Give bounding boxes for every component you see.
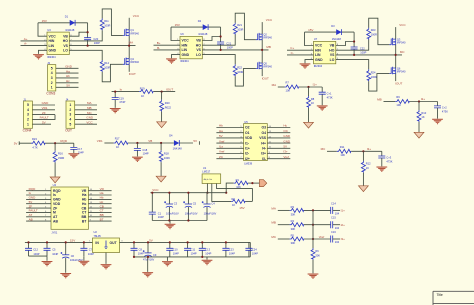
svg-text:15V: 15V: [175, 23, 180, 27]
current sense row: Is - R19 - IOUT: [110, 87, 175, 128]
svg-text:I3-: I3-: [262, 157, 266, 161]
svg-text:R11: R11: [104, 19, 109, 23]
svg-text:MB: MB: [87, 106, 92, 110]
svg-text:I1-: I1-: [245, 141, 249, 145]
wire: [278, 86, 285, 88]
svg-text:MA: MA: [271, 206, 276, 210]
svg-text:GND: GND: [42, 101, 50, 105]
svg-text:R11: R11: [340, 145, 345, 149]
wire pin12: [88, 207, 111, 209]
wire pin6: [216, 153, 243, 155]
svg-text:ILs: ILs: [219, 145, 224, 149]
svg-text:U1: U1: [203, 166, 207, 170]
svg-text:10K: 10K: [396, 103, 401, 107]
svg-text:Vref: Vref: [283, 155, 289, 159]
svg-text:VDD: VDD: [245, 136, 253, 140]
ground under C8 C9: [147, 257, 149, 272]
wire to node: [299, 86, 322, 88]
capacitor C16: [331, 236, 333, 243]
svg-text:104P: 104P: [173, 251, 179, 255]
wire to ground: [312, 260, 314, 273]
wire: [278, 238, 290, 240]
gate driver block A (U3): [21, 9, 140, 82]
ground of VCC bank: [169, 221, 171, 224]
15V input filter bank: [25, 239, 94, 279]
wire cap out: [333, 238, 340, 240]
U5 left pins: [216, 124, 243, 159]
wire pin1: [32, 123, 51, 125]
svg-text:C-: C-: [291, 51, 294, 55]
svg-text:VCC: VCC: [399, 23, 406, 27]
wire pin4: [75, 118, 97, 120]
wire pin2: [75, 109, 97, 111]
svg-text:O2: O2: [245, 126, 250, 130]
ground under R6: [308, 274, 319, 279]
svg-text:10K: 10K: [286, 89, 291, 93]
capacitor C19: [114, 92, 116, 98]
svg-text:3: 3: [27, 113, 29, 117]
svg-text:C+1: C+1: [327, 92, 332, 96]
svg-text:D3: D3: [331, 24, 335, 28]
svg-text:R21: R21: [237, 23, 242, 27]
svg-text:4: 4: [27, 108, 29, 112]
svg-text:I3+: I3+: [367, 147, 372, 151]
U5 right pins: [267, 124, 291, 159]
svg-text:Ha: Ha: [82, 193, 86, 197]
svg-text:R18: R18: [164, 151, 169, 155]
connector J3 CON3: [46, 61, 78, 96]
svg-text:Q2: Q2: [263, 32, 267, 36]
svg-text:Q4: Q4: [130, 57, 134, 61]
wire pin9: [267, 153, 290, 155]
svg-text:R14: R14: [104, 61, 109, 65]
svg-text:5: 5: [51, 66, 53, 70]
svg-text:104P: 104P: [252, 251, 258, 255]
wire VCC rail: [150, 192, 226, 194]
svg-text:IN: IN: [95, 241, 99, 245]
svg-text:5V: 5V: [149, 239, 153, 243]
capacitor C17 104P: [73, 143, 75, 147]
arrow ground below R12: [362, 173, 364, 186]
svg-text:R20: R20: [165, 101, 170, 105]
svg-text:4: 4: [69, 118, 71, 122]
svg-text:I4+: I4+: [261, 141, 266, 145]
connector J4 OUT: [65, 97, 97, 132]
svg-text:C22: C22: [360, 47, 365, 51]
resistor R19 1K: [139, 90, 153, 94]
resistor R20: [161, 92, 163, 100]
svg-text:1: 1: [27, 122, 29, 126]
arrow ground below R8: [308, 108, 310, 122]
svg-text:Title: Title: [437, 293, 443, 297]
diode D2: [198, 19, 208, 36]
arrow ground below R20: [161, 112, 163, 122]
svg-text:R5: R5: [291, 234, 295, 238]
svg-text:104P: 104P: [229, 251, 235, 255]
wire pin8: [26, 220, 51, 222]
wire to bus: [304, 209, 331, 211]
svg-text:C12: C12: [33, 248, 38, 252]
svg-text:I4-: I4-: [262, 147, 266, 151]
capacitor C5 100uF: [187, 193, 189, 221]
capacitor C9 47uF/16V: [147, 242, 149, 257]
wire In lead: [212, 184, 231, 202]
wire pin11: [88, 211, 111, 213]
svg-text:5V: 5V: [42, 120, 46, 124]
svg-text:R4: R4: [291, 219, 295, 223]
resistor R4 30K: [290, 223, 304, 227]
port arrow output: [259, 180, 266, 187]
svg-text:100uF/16V: 100uF/16V: [166, 212, 179, 216]
wire: [278, 209, 290, 211]
svg-text:104P: 104P: [143, 152, 149, 156]
svg-text:C3: C3: [174, 202, 178, 206]
capacitor C14: [331, 207, 333, 214]
wire: [327, 150, 337, 152]
gate driver block C (U7): [287, 18, 406, 91]
svg-text:2: 2: [69, 108, 71, 112]
svg-text:R8: R8: [311, 97, 315, 101]
RQD row: 5V - R23 - RQD node: [14, 137, 84, 183]
VCC filter bank C1 C3 C5 C4: [149, 188, 226, 229]
wire pin5: [56, 67, 79, 69]
wire pin9: [88, 220, 111, 222]
wire pin8: [267, 158, 290, 160]
wire pin2: [216, 132, 243, 134]
resistor R3 30K: [290, 208, 304, 212]
svg-text:MC: MC: [321, 147, 326, 151]
svg-text:R12: R12: [366, 162, 371, 166]
ground under C19: [114, 100, 116, 108]
svg-text:R2: R2: [232, 197, 236, 201]
svg-text:C24: C24: [252, 248, 257, 252]
svg-text:5: 5: [27, 103, 29, 107]
capacitor C8 104P: [133, 242, 135, 257]
svg-text:Q5: Q5: [263, 61, 267, 65]
svg-text:R7: R7: [286, 81, 290, 85]
svg-text:B+: B+: [157, 41, 161, 45]
capacitor C12 104P: [28, 242, 30, 256]
svg-text:15V: 15V: [239, 206, 244, 210]
wire pin2: [56, 82, 79, 84]
svg-text:30K: 30K: [291, 241, 296, 245]
svg-text:5V: 5V: [29, 200, 33, 204]
svg-text:1N4148: 1N4148: [173, 147, 183, 151]
wire: [104, 142, 113, 144]
svg-text:10K: 10K: [236, 185, 241, 189]
svg-text:OUT: OUT: [65, 128, 72, 132]
wire joining bottoms: [29, 255, 48, 257]
svg-text:Hb: Hb: [66, 74, 70, 78]
svg-text:C4: C4: [211, 202, 215, 206]
reference row: VR1 - R17 - VB - D4 - 5V: [97, 133, 200, 182]
ground under C6: [60, 273, 71, 278]
svg-text:30K: 30K: [291, 227, 296, 231]
svg-text:I2+: I2+: [245, 157, 250, 161]
wire to bus: [304, 224, 331, 226]
svg-text:IOUT: IOUT: [395, 81, 402, 85]
svg-text:A-: A-: [24, 42, 27, 46]
svg-text:3: 3: [51, 76, 53, 80]
resistor R11 10K: [337, 149, 351, 153]
ground under C18: [136, 150, 138, 156]
capacitor C6 100uF/25V: [65, 242, 67, 272]
svg-text:5V: 5V: [66, 84, 70, 88]
resistor R9 10K: [395, 100, 409, 104]
svg-text:VCC: VCC: [86, 120, 93, 124]
svg-text:M: M: [53, 211, 56, 215]
svg-text:I1+: I1+: [313, 83, 318, 87]
capacitor C42 473K: [437, 102, 439, 106]
svg-text:D2: D2: [198, 19, 202, 23]
svg-text:U3: U3: [47, 28, 51, 32]
svg-text:VSS: VSS: [259, 136, 267, 140]
svg-text:1K: 1K: [232, 203, 235, 207]
wire Is: [112, 91, 139, 93]
svg-text:3: 3: [69, 113, 71, 117]
svg-text:MA: MA: [129, 41, 134, 45]
svg-text:GND: GND: [86, 116, 94, 120]
svg-text:VR1: VR1: [42, 106, 48, 110]
resistor R18 100K: [160, 143, 162, 150]
svg-text:Is: Is: [53, 193, 56, 197]
wire to bus: [304, 238, 331, 240]
svg-text:104P: 104P: [52, 252, 58, 256]
svg-text:R3: R3: [291, 205, 295, 209]
svg-text:FAULT: FAULT: [40, 116, 49, 120]
svg-text:104P: 104P: [191, 251, 197, 255]
ground under C12 C5: [46, 256, 48, 261]
svg-text:Ha: Ha: [66, 69, 70, 73]
wire pin5: [216, 147, 243, 149]
svg-text:CON4: CON4: [23, 128, 32, 132]
capacitor C7 104P: [83, 242, 85, 256]
ground under C17: [73, 149, 75, 153]
svg-text:MA: MA: [272, 83, 277, 87]
MA sense RC filter: [272, 81, 333, 128]
svg-text:I2-: I2-: [245, 152, 249, 156]
svg-text:I3+: I3+: [261, 152, 266, 156]
svg-text:U5: U5: [244, 120, 248, 124]
svg-text:BT: BT: [100, 217, 104, 221]
svg-text:C23: C23: [229, 248, 234, 252]
svg-text:104P: 104P: [205, 251, 211, 255]
arrow port below R18: [160, 162, 162, 176]
svg-text:C14: C14: [331, 201, 336, 205]
wire pin14: [267, 127, 290, 129]
svg-text:C13: C13: [205, 248, 210, 252]
svg-text:474P: 474P: [119, 100, 125, 104]
MB sense RC filter: [377, 95, 448, 138]
5V output filter bank: [120, 239, 259, 278]
svg-text:100uF/16V: 100uF/16V: [204, 212, 217, 216]
svg-text:BB: BB: [100, 213, 104, 217]
svg-text:R10: R10: [421, 111, 426, 115]
svg-text:R6: R6: [315, 249, 319, 253]
svg-text:Ha: Ha: [219, 129, 223, 133]
wire to node: [351, 150, 382, 152]
IC U2 78L05 regulator: [89, 230, 123, 269]
svg-text:B-: B-: [157, 46, 160, 50]
diode D1: [65, 15, 75, 32]
svg-text:Q1: Q1: [130, 28, 134, 32]
svg-text:I3+: I3+: [283, 150, 288, 154]
svg-text:104: 104: [335, 212, 340, 216]
svg-text:473K: 473K: [442, 109, 448, 113]
svg-text:C16: C16: [331, 230, 336, 234]
wire: [278, 224, 290, 226]
svg-text:104P: 104P: [158, 215, 164, 219]
svg-text:RQD: RQD: [60, 139, 68, 143]
svg-text:47uF/16V: 47uF/16V: [143, 257, 155, 261]
arrow ground below R10: [418, 122, 420, 132]
svg-text:C17: C17: [77, 147, 82, 151]
svg-text:473K: 473K: [327, 96, 333, 100]
wire bottom rail: [134, 242, 250, 257]
capacitor C1 104P: [151, 193, 153, 221]
svg-text:OUT: OUT: [110, 241, 118, 245]
svg-text:IOUT: IOUT: [166, 87, 173, 91]
IC U4 JY01 motor controller: [51, 183, 88, 234]
ground under C13: [206, 257, 208, 260]
svg-text:Adj In Out: Adj In Out: [204, 178, 213, 181]
U4 left pins: [26, 187, 51, 222]
svg-text:C7: C7: [89, 248, 93, 252]
svg-text:5V: 5V: [193, 139, 197, 143]
svg-text:I2+: I2+: [421, 97, 426, 101]
svg-text:Hb: Hb: [219, 124, 223, 128]
wire pin4: [26, 203, 51, 205]
svg-text:O4: O4: [261, 131, 266, 135]
svg-text:MA: MA: [87, 101, 92, 105]
wire pin7: [26, 216, 51, 218]
connector J1 CON4: [23, 97, 55, 132]
resistor R16 330R: [54, 143, 56, 150]
svg-text:C9: C9: [153, 253, 157, 257]
wire pin6: [26, 211, 51, 213]
ground under C41: [321, 94, 323, 105]
svg-text:O3: O3: [261, 126, 266, 130]
svg-text:1N4148: 1N4148: [332, 37, 342, 41]
svg-text:U7: U7: [314, 37, 318, 41]
svg-text:U2: U2: [94, 230, 98, 234]
svg-text:1K: 1K: [311, 101, 314, 105]
resistor R6 30K: [311, 248, 315, 260]
svg-text:MB: MB: [271, 221, 276, 225]
wire bottom rail: [152, 220, 207, 222]
svg-text:GND: GND: [65, 65, 73, 69]
svg-text:2: 2: [27, 118, 29, 122]
svg-text:O1: O1: [245, 131, 250, 135]
svg-text:C19: C19: [119, 97, 124, 101]
svg-text:Ha: Ha: [100, 191, 104, 195]
wire Out lead: [217, 184, 253, 202]
svg-text:C5: C5: [52, 248, 56, 252]
svg-text:4.7K: 4.7K: [32, 145, 38, 149]
ground under C7: [79, 261, 90, 266]
svg-text:1N4148: 1N4148: [65, 28, 75, 32]
capacitor C11 104P: [187, 242, 189, 257]
title block: [433, 291, 474, 305]
capacitor C10 104P: [169, 242, 171, 257]
wire pin4: [32, 109, 55, 111]
svg-text:IOUT: IOUT: [262, 76, 269, 80]
wire pin1: [56, 86, 79, 88]
capacitor C4 100uF: [206, 193, 208, 221]
resistor R10 1K: [418, 102, 420, 111]
svg-text:C+: C+: [290, 46, 294, 50]
svg-text:C1: C1: [158, 212, 162, 216]
svg-text:JY01: JY01: [51, 231, 57, 235]
wire to node: [45, 142, 73, 144]
svg-text:100K: 100K: [164, 156, 170, 160]
wire pin2: [32, 115, 55, 120]
wire pin13: [267, 132, 290, 134]
wire to 5V: [179, 141, 199, 145]
svg-text:U6: U6: [180, 32, 184, 36]
svg-text:5V: 5V: [14, 141, 18, 145]
svg-text:D4: D4: [169, 133, 173, 137]
wire pin14: [88, 198, 111, 200]
arrow port below R16: [54, 163, 56, 177]
capacitor C23 104P: [225, 242, 227, 257]
svg-text:Hc: Hc: [283, 124, 287, 128]
resistor R2 1K: [231, 199, 245, 203]
svg-text:Vref: Vref: [219, 150, 225, 154]
svg-text:Hc: Hc: [100, 200, 104, 204]
wire pin7: [216, 158, 243, 160]
svg-text:15V: 15V: [308, 28, 313, 32]
wire cap out: [333, 224, 340, 226]
wire pin13: [88, 203, 111, 205]
svg-text:5V: 5V: [219, 134, 223, 138]
ground under C43: [381, 158, 383, 166]
capacitor C43 473K: [381, 151, 383, 156]
diode D3: [331, 24, 341, 41]
svg-text:C21: C21: [226, 42, 231, 46]
ground under C10: [166, 257, 168, 261]
svg-text:R17: R17: [115, 137, 120, 141]
svg-text:30K: 30K: [315, 253, 320, 257]
svg-text:1K: 1K: [141, 94, 144, 98]
wire pin3: [75, 114, 97, 116]
svg-text:R19: R19: [140, 87, 145, 91]
capacitor C15: [331, 221, 333, 228]
svg-text:78L05: 78L05: [94, 234, 102, 238]
wire pin5: [26, 207, 51, 209]
svg-text:IOUT: IOUT: [129, 72, 136, 76]
resistor R7 10K: [285, 85, 299, 89]
svg-text:5: 5: [69, 122, 71, 126]
wire to port: [248, 182, 259, 184]
svg-text:C15: C15: [331, 216, 336, 220]
wire pin1: [216, 127, 243, 129]
svg-text:LM339: LM339: [244, 161, 252, 165]
svg-text:473K: 473K: [386, 159, 392, 163]
wire pin3: [56, 77, 79, 79]
svg-text:Q6: Q6: [397, 66, 401, 70]
svg-text:A+: A+: [24, 37, 28, 41]
svg-text:VCC: VCC: [152, 188, 159, 192]
svg-text:MC: MC: [271, 235, 276, 239]
svg-text:R24: R24: [371, 70, 376, 74]
svg-text:MB: MB: [377, 97, 382, 101]
svg-text:1K: 1K: [116, 145, 119, 149]
svg-text:1K: 1K: [366, 166, 369, 170]
wire: [384, 101, 396, 103]
wire pin4: [56, 72, 79, 74]
resistor R5 30K: [290, 237, 304, 241]
